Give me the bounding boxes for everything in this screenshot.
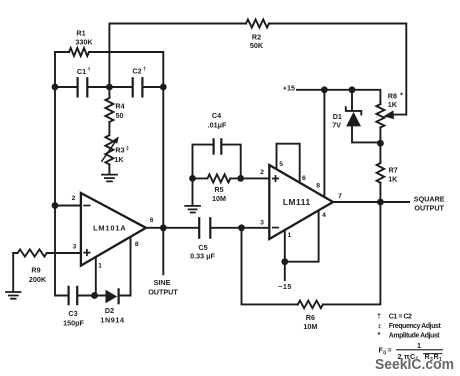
- wire LM111 pin3 node down and bottom feedback rail: [242, 202, 381, 304]
- wire R5 row to LM111 pin2: [193, 177, 270, 179]
- junction node dots: [52, 84, 384, 299]
- node D1 R8 R7: [377, 140, 384, 147]
- wire top rail from middle column through R2 to right side: [109, 24, 406, 115]
- svg-text:+15: +15: [283, 84, 295, 93]
- wire node to R7 to output node: [379, 143, 381, 202]
- op-amp U2 LM111: [269, 165, 333, 239]
- svg-text:†: †: [143, 67, 146, 73]
- svg-text:C4: C4: [212, 111, 221, 120]
- svg-text:†: †: [87, 67, 90, 73]
- note Amplitude Adjust: [378, 330, 441, 340]
- node C1 left: [52, 84, 59, 91]
- svg-text:.01μF: .01μF: [208, 120, 227, 129]
- ground below R3: [102, 175, 117, 182]
- label D1 7V: [332, 112, 342, 129]
- capacitor C2: [133, 78, 143, 96]
- label SINE OUTPUT: [148, 278, 178, 296]
- node +15 D1: [349, 86, 356, 93]
- svg-text:1K: 1K: [114, 155, 124, 164]
- wire R4 to R3: [108, 122, 110, 135]
- resistor R3 (variable): [105, 135, 113, 164]
- op-amp U1 LM101A: [81, 193, 146, 266]
- svg-text:3: 3: [73, 243, 77, 250]
- R8 wiper arrowhead: [383, 110, 394, 119]
- node pin3 LM111: [238, 224, 245, 231]
- op-amp input polarity marks: [84, 176, 278, 256]
- wire LM111 pin8 to +15: [323, 90, 325, 197]
- svg-text:8: 8: [316, 183, 320, 190]
- svg-text:*: *: [378, 330, 381, 339]
- wire LM111 pin7 output row: [333, 201, 409, 203]
- svg-text:C3: C3: [68, 309, 77, 318]
- svg-text:10M: 10M: [212, 194, 226, 203]
- svg-text:200K: 200K: [29, 275, 47, 284]
- svg-text:=: =: [388, 346, 392, 355]
- svg-text:C2: C2: [132, 67, 141, 76]
- plus pin3 LM101A: [84, 250, 89, 255]
- svg-text:R4: R4: [115, 102, 124, 111]
- svg-text:50: 50: [116, 111, 124, 120]
- label R9 200K: [29, 266, 47, 284]
- label R7 1K: [388, 166, 398, 184]
- node C1 C2 middle: [106, 84, 113, 91]
- node C3 D2 pin1: [91, 292, 98, 299]
- svg-text:1: 1: [288, 232, 292, 239]
- svg-text:LM101A: LM101A: [93, 223, 126, 232]
- svg-text:R5: R5: [214, 185, 223, 194]
- svg-text:10M: 10M: [303, 322, 317, 331]
- resistor R7: [377, 163, 385, 183]
- svg-text:R1: R1: [76, 29, 85, 38]
- label R5 10M: [212, 185, 226, 203]
- wire C1 C2 row: [55, 86, 163, 88]
- svg-text:R3: R3: [115, 145, 124, 154]
- svg-text:‡: ‡: [126, 146, 129, 152]
- resistor R2: [246, 20, 269, 28]
- svg-text:1: 1: [98, 263, 102, 270]
- capacitor C4: [214, 139, 222, 153]
- svg-text:R7: R7: [389, 166, 398, 175]
- label R6 10M: [303, 313, 317, 331]
- wire R9 to LM101A pin3: [13, 252, 81, 254]
- node pin2 LM101A: [52, 202, 59, 209]
- node C2 right: [160, 84, 167, 91]
- label C5 0.33uF: [190, 243, 215, 260]
- wire LM111 pin1 pin4 to -15: [285, 211, 319, 280]
- svg-text:4: 4: [322, 212, 326, 219]
- svg-text:LM111: LM111: [283, 197, 311, 207]
- node C4 R5 left: [189, 175, 196, 182]
- node -15: [281, 258, 288, 265]
- wire middle column to R4: [108, 87, 110, 98]
- label C2: [132, 67, 146, 76]
- wire LM101A pin6 output: [146, 227, 163, 229]
- wire +15 rail: [297, 90, 380, 104]
- svg-text:8: 8: [135, 241, 139, 248]
- label C3 150pF: [63, 309, 84, 327]
- minus pin2 LM101A: [84, 205, 89, 207]
- svg-text:Amplitude Adjust: Amplitude Adjust: [389, 332, 440, 339]
- svg-text:1: 1: [417, 341, 421, 350]
- diode D2 1N914 symbol: [106, 290, 118, 304]
- ground below C4 R5: [185, 206, 200, 213]
- wire R3 to ground: [108, 165, 110, 175]
- resistor R8 (pot): [376, 104, 384, 127]
- node square output: [377, 199, 384, 206]
- svg-text:6: 6: [302, 175, 306, 182]
- svg-text:C1: C1: [77, 67, 86, 76]
- node C4 R5 right pin2 LM111: [237, 175, 244, 182]
- svg-text:Frequency Adjust: Frequency Adjust: [389, 323, 442, 330]
- wire C4 node to ground: [192, 178, 194, 205]
- wire left column down to bottom: [54, 87, 56, 296]
- svg-text:†: †: [377, 312, 381, 321]
- pin labels LM111: [260, 161, 342, 239]
- svg-text:6: 6: [150, 217, 154, 224]
- svg-text:50K: 50K: [250, 41, 264, 50]
- svg-text:2: 2: [260, 169, 264, 176]
- pin labels LM101A: [72, 195, 154, 269]
- label C4 .01uF: [208, 111, 227, 129]
- svg-text:OUTPUT: OUTPUT: [148, 287, 178, 296]
- wire bottom row with C3: [55, 295, 105, 297]
- svg-text:D2: D2: [105, 306, 114, 315]
- svg-text:2: 2: [72, 195, 76, 202]
- label R8 1K: [388, 91, 403, 110]
- note C1 = C2: [377, 312, 412, 321]
- capacitor C3: [69, 287, 78, 304]
- svg-text:R8: R8: [388, 91, 397, 100]
- diode D1 zener: [346, 90, 381, 143]
- capacitor C1: [78, 78, 88, 96]
- wire D2 cathode to LM101A pin8: [119, 237, 131, 296]
- note Frequency Adjust: [378, 323, 441, 330]
- wire LM101A pin2: [55, 205, 81, 207]
- svg-text:R9: R9: [31, 266, 40, 275]
- svg-text:5: 5: [279, 161, 283, 168]
- svg-text:1K: 1K: [388, 100, 398, 109]
- wire R8 to node: [379, 128, 381, 144]
- wire C4 parallel loop: [193, 145, 241, 179]
- label R4 50: [115, 102, 124, 120]
- svg-text:C1 = C2: C1 = C2: [389, 314, 412, 321]
- resistor R4: [105, 98, 113, 122]
- svg-text:1K: 1K: [388, 175, 398, 184]
- svg-text:−15: −15: [278, 282, 292, 291]
- svg-text:0.33 μF: 0.33 μF: [190, 251, 215, 260]
- node sine output pin6: [160, 224, 167, 231]
- label R2 50K: [250, 33, 264, 51]
- wire C5 row: [163, 227, 269, 229]
- label C1: [77, 67, 91, 76]
- capacitor C5: [199, 218, 210, 237]
- svg-text:SeekIC.com: SeekIC.com: [375, 356, 454, 373]
- diode D1 zener symbol triangle: [346, 112, 361, 127]
- label D2 1N914: [100, 306, 124, 324]
- wire LM101A pin1: [95, 257, 97, 296]
- plus pin2 LM111: [273, 176, 278, 181]
- svg-text:7: 7: [338, 193, 342, 200]
- wire right column pin6 node up to C2 node and sine stub down: [162, 87, 164, 274]
- ground below R9: [6, 292, 21, 299]
- wire R9 to ground: [12, 253, 14, 292]
- svg-text:3: 3: [260, 220, 264, 227]
- svg-text:1N914: 1N914: [100, 316, 124, 325]
- svg-text:330K: 330K: [75, 38, 93, 47]
- svg-text:SQUARE: SQUARE: [414, 194, 445, 203]
- svg-text:7V: 7V: [332, 120, 341, 129]
- resistor R1: [69, 48, 89, 56]
- svg-text:R6: R6: [306, 313, 315, 322]
- svg-text:*: *: [400, 91, 403, 100]
- svg-text:OUTPUT: OUTPUT: [414, 203, 444, 212]
- R3 wiper arrow: [102, 143, 115, 162]
- R3 wiper arrowhead: [113, 136, 119, 144]
- minus pin3 LM111: [273, 227, 278, 229]
- wire R1 top rail: [55, 52, 163, 87]
- resistor R9: [18, 249, 47, 256]
- resistor R6: [298, 301, 323, 309]
- svg-text:150pF: 150pF: [63, 318, 84, 327]
- label R1 330K: [75, 29, 93, 47]
- svg-text:SINE: SINE: [154, 278, 171, 287]
- formula F0: [379, 341, 443, 363]
- wire LM111 pin5 pin6 loop: [277, 144, 300, 183]
- label R3 1K: [114, 145, 129, 163]
- label SQUARE OUTPUT: [414, 194, 445, 212]
- node +15 pin8: [321, 86, 328, 93]
- resistor R5: [208, 174, 231, 182]
